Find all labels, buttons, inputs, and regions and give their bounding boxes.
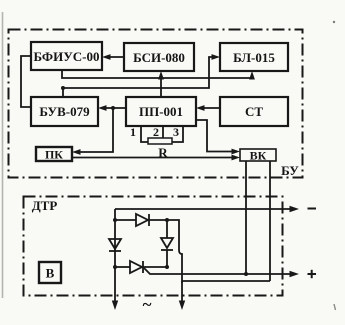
block BFIUS-00	[31, 42, 102, 70]
block PK	[36, 147, 72, 161]
svg-text:2: 2	[153, 125, 159, 139]
bypass wire to AC2	[167, 220, 182, 283]
svg-text:БУ: БУ	[281, 163, 299, 178]
junction dot B	[61, 86, 65, 90]
svg-text:СТ: СТ	[245, 104, 263, 119]
page edge artifact	[2, 12, 4, 298]
left AC rail	[114, 209, 116, 305]
pin 2 wire	[162, 126, 164, 138]
diode D1	[136, 214, 148, 226]
box V	[39, 262, 61, 283]
wire PP to BUV with arrow	[101, 107, 126, 109]
speck bottom right	[334, 304, 336, 310]
dot left rail bottom	[113, 265, 117, 269]
label plus	[308, 273, 317, 275]
junction dot PP-BUV	[111, 106, 115, 110]
AC2 lead down	[181, 281, 183, 305]
block BSI-080	[124, 43, 194, 71]
plus line	[144, 268, 296, 274]
label minus	[308, 208, 317, 210]
resistor R	[148, 138, 172, 144]
diode D3	[161, 238, 173, 248]
svg-text:ПК: ПК	[45, 148, 63, 162]
block PP-001	[126, 97, 196, 126]
svg-text:БСИ-080: БСИ-080	[133, 50, 185, 65]
speck top right	[333, 21, 335, 23]
wire A: BFIUS bottom to BL bottom	[62, 70, 252, 78]
dash-dot frame DTR	[24, 197, 283, 296]
wire B: BUV top to BL left with arrow	[63, 57, 217, 97]
wire BFIUS left down to BUV	[21, 56, 31, 107]
wire BSI to BFIUS with arrow	[105, 56, 124, 58]
wire PP to BSI with arrow	[160, 74, 162, 97]
svg-text:ДТР: ДТР	[32, 198, 58, 213]
bottom return wire	[182, 280, 270, 282]
diode D2 on left rail	[109, 239, 121, 249]
dot plus line VK	[244, 272, 248, 276]
VK right lead down	[269, 161, 271, 281]
block BL-015	[220, 43, 288, 71]
wire ST to PP with arrow	[199, 107, 220, 109]
pin 1 wire	[141, 126, 148, 142]
diode D1 row	[115, 219, 136, 221]
svg-text:ПП-001: ПП-001	[139, 104, 183, 119]
svg-text:В: В	[46, 266, 55, 281]
svg-text:1: 1	[130, 125, 136, 139]
svg-text:3: 3	[173, 125, 179, 139]
block VK	[240, 149, 276, 161]
svg-text:~: ~	[143, 295, 152, 314]
wire PP to VK with arrow	[196, 120, 237, 152]
junction dot bottom middle	[165, 265, 169, 269]
dot left rail top	[113, 218, 117, 222]
svg-text:ВК: ВК	[250, 149, 267, 163]
VK left lead down	[245, 161, 247, 274]
wire PK to VK with arrow	[72, 157, 237, 159]
svg-text:БЛ-015: БЛ-015	[233, 50, 275, 65]
svg-text:R: R	[158, 145, 168, 160]
diode D4	[130, 261, 142, 273]
wire branch down to PK with arrow	[75, 108, 113, 152]
dash-dot frame BU (control unit)	[9, 30, 303, 178]
junction dot top middle	[165, 218, 169, 222]
block ST	[220, 97, 288, 126]
diode D4 row	[115, 266, 130, 268]
block BUV-079	[31, 97, 98, 126]
minus rail	[115, 208, 296, 210]
svg-text:БФИУС-00: БФИУС-00	[34, 49, 100, 64]
pin 3 wire	[172, 126, 183, 142]
svg-text:БУВ-079: БУВ-079	[39, 104, 90, 119]
diode D3 vertical wire	[166, 220, 168, 238]
